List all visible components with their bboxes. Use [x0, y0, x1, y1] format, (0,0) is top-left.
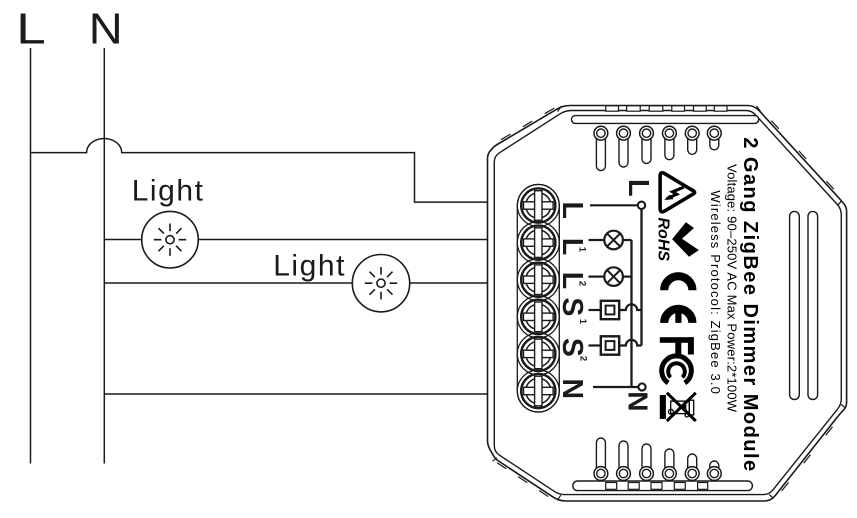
wire live to module terminal L (hop over N)	[31, 138, 489, 202]
svg-text:N: N	[623, 391, 654, 411]
svg-text:N: N	[556, 379, 588, 400]
lamp LIGHT1	[142, 211, 199, 268]
icon CE mark letter C	[664, 276, 692, 290]
svg-text:L: L	[16, 5, 46, 53]
svg-text:L: L	[556, 202, 588, 219]
lamp LIGHT2	[352, 255, 409, 312]
icon RoHS checkmark	[672, 222, 699, 257]
svg-text:N: N	[89, 4, 123, 53]
icon WEEE crossed-out bin	[660, 393, 696, 421]
svg-text:RoHS: RoHS	[655, 218, 672, 262]
case top edge tabs	[606, 106, 727, 111]
wire N vertical	[103, 48, 105, 464]
internal switch symbol S1 (square)	[589, 301, 642, 319]
svg-text:Light: Light	[132, 175, 205, 208]
case bevel tabs top-left	[501, 108, 554, 140]
dimmer module U1 outer case outline	[488, 106, 847, 502]
case bevel tabs top-right	[771, 121, 834, 190]
internal wire main bus from node L	[640, 209, 642, 346]
svg-text:L2: L2	[556, 272, 588, 289]
internal lamp symbol L2 (circle-X)	[589, 267, 632, 286]
wire neutral to module terminal N	[104, 393, 488, 395]
svg-text:L1: L1	[556, 238, 588, 255]
terminal screw S2	[517, 333, 559, 375]
terminal screw L1	[517, 222, 559, 264]
case bottom vent slot	[573, 481, 753, 491]
internal wire L row	[590, 204, 638, 206]
case corner facet ticks	[490, 106, 846, 500]
icon FCC mark	[660, 337, 694, 383]
terminal screw L	[517, 185, 559, 227]
internal wire lamp bus	[630, 240, 632, 387]
case bottom keyhole slots	[594, 438, 721, 480]
internal node L (open terminal)	[638, 202, 645, 209]
terminal screw L2	[517, 259, 559, 301]
terminal screw N	[517, 370, 559, 412]
wire lamp1 row to module terminal L1	[104, 239, 488, 241]
svg-text:Light: Light	[273, 249, 346, 282]
case top vent slot	[571, 116, 758, 124]
svg-text:2 Gang ZigBee Dimmer Module: 2 Gang ZigBee Dimmer Module	[739, 137, 761, 471]
case right vent slots	[790, 211, 818, 399]
internal wire N row	[593, 386, 638, 388]
internal lamp symbol L1 (circle-X)	[589, 231, 632, 250]
case bottom edge tabs	[606, 483, 708, 490]
terminal screw S1	[517, 296, 559, 338]
case top keyhole slots	[594, 126, 721, 170]
case bevel tabs bottom-left	[497, 463, 548, 497]
case bevel tabs bottom-right	[782, 427, 833, 491]
svg-text:Wireless Protocol: ZigBee 3.0: Wireless Protocol: ZigBee 3.0	[708, 190, 723, 394]
icon warning triangle with lightning bolt	[660, 173, 695, 212]
terminal screw track	[517, 184, 559, 412]
internal node N (open terminal)	[638, 383, 645, 390]
dimmer module U1 inner case outline	[494, 111, 841, 495]
svg-text:L: L	[622, 179, 654, 197]
wire lamp2 row to module terminal L2	[104, 282, 488, 284]
wire L vertical	[30, 48, 32, 464]
svg-text:Voltage: 90–250V AC Max Power:: Voltage: 90–250V AC Max Power:2*100W	[724, 164, 739, 413]
internal switch symbol S2 (square)	[589, 336, 642, 354]
icon CE mark letter E	[664, 309, 692, 323]
